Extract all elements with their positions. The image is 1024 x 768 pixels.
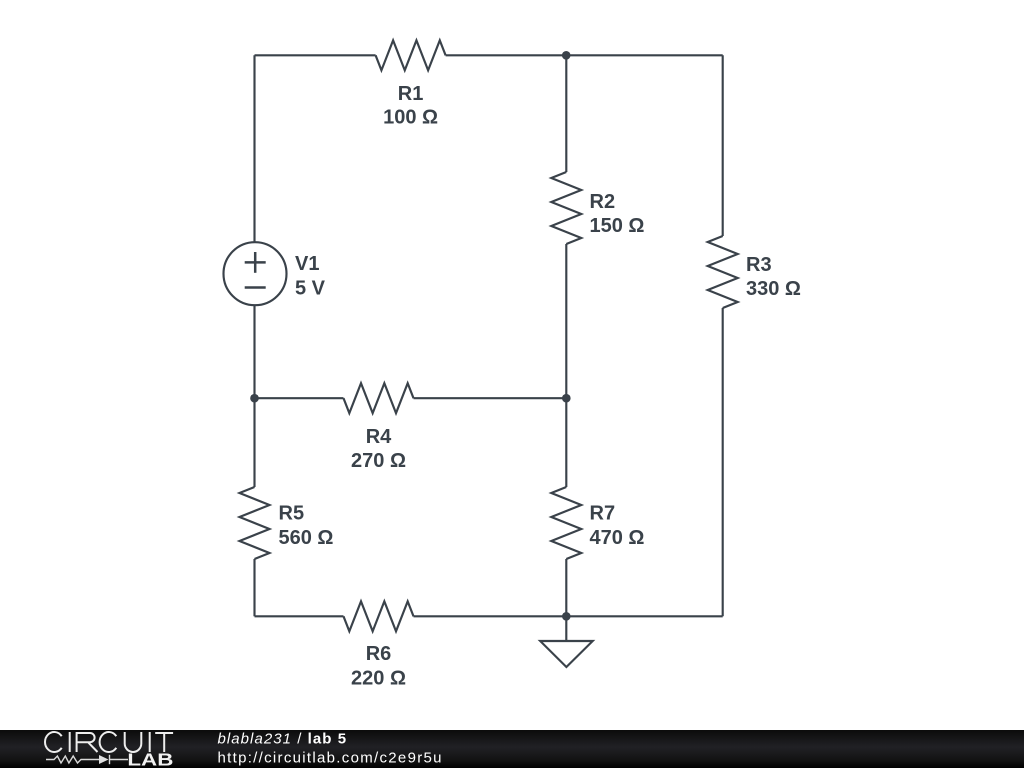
svg-text:150 Ω: 150 Ω: [590, 215, 645, 237]
svg-text:R4: R4: [366, 426, 392, 448]
svg-text:560 Ω: 560 Ω: [279, 527, 334, 549]
svg-text:330 Ω: 330 Ω: [746, 278, 801, 300]
svg-text:R6: R6: [366, 643, 392, 665]
svg-text:R2: R2: [590, 191, 616, 213]
svg-text:470 Ω: 470 Ω: [590, 527, 645, 549]
svg-text:R7: R7: [590, 503, 616, 525]
svg-text:V1: V1: [295, 253, 319, 275]
svg-text:LAB: LAB: [127, 750, 173, 768]
svg-text:5 V: 5 V: [295, 278, 326, 300]
svg-text:270 Ω: 270 Ω: [351, 450, 406, 472]
svg-text:R3: R3: [746, 254, 772, 276]
svg-text:http://circuitlab.com/c2e9r5u: http://circuitlab.com/c2e9r5u: [218, 750, 443, 767]
svg-text:220 Ω: 220 Ω: [351, 668, 406, 690]
svg-text:R5: R5: [279, 503, 305, 525]
svg-text:100 Ω: 100 Ω: [383, 107, 438, 129]
svg-text:blabla231 / lab 5: blabla231 / lab 5: [218, 731, 348, 748]
svg-text:R1: R1: [398, 83, 424, 105]
